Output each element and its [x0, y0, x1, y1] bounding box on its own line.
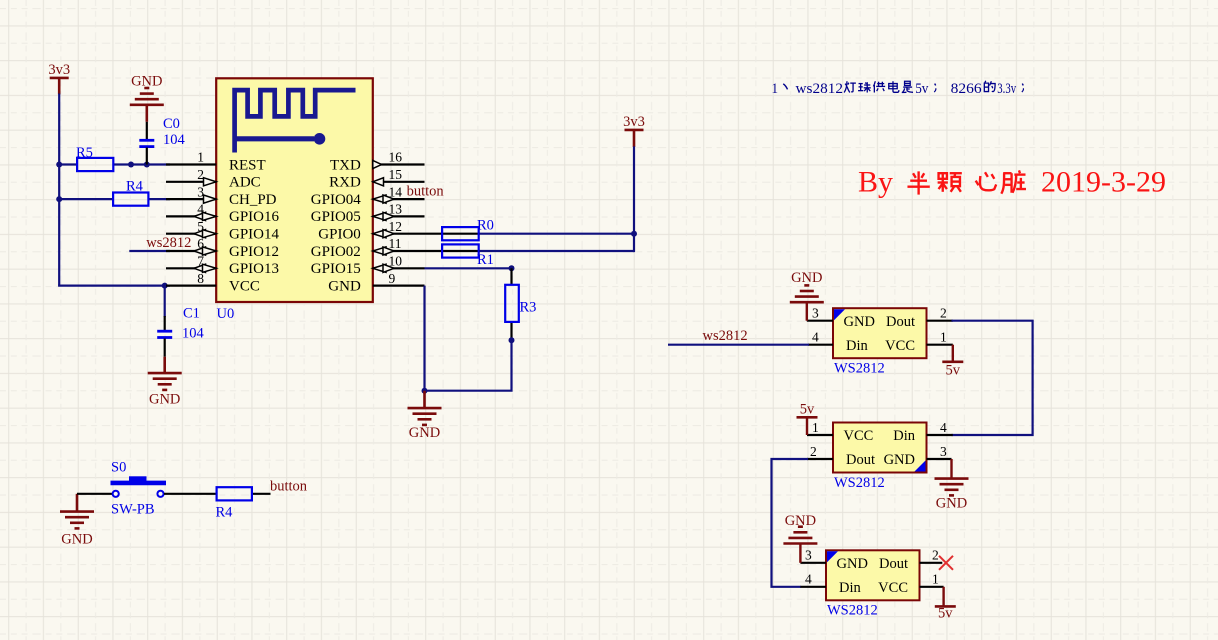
ground (below C1): [148, 357, 182, 408]
junction C1 tap: [162, 283, 168, 289]
wire 3v3 rail vertical: [58, 94, 60, 286]
svg-text:GPIO0: GPIO0: [318, 227, 361, 243]
resistor R3: [505, 268, 536, 340]
LED module WS2812 #2: [833, 423, 927, 492]
svg-text:Dout: Dout: [846, 452, 875, 468]
svg-text:3.3v: 3.3v: [997, 81, 1016, 97]
pin 4 stub (#2 Din): [927, 420, 953, 435]
svg-text:GPIO02: GPIO02: [311, 244, 361, 260]
svg-text:2019-3-29: 2019-3-29: [1041, 165, 1166, 198]
svg-text:CH_PD: CH_PD: [229, 192, 277, 208]
svg-text:15: 15: [389, 167, 403, 182]
svg-text:button: button: [270, 479, 308, 495]
svg-text:4: 4: [940, 420, 947, 435]
svg-text:1: 1: [197, 150, 204, 165]
pin 1 (REST): [166, 150, 266, 174]
svg-text:GPIO04: GPIO04: [311, 192, 362, 208]
svg-text:Din: Din: [846, 338, 869, 354]
svg-text:GND: GND: [844, 314, 875, 330]
svg-text:VCC: VCC: [844, 428, 874, 444]
svg-text:button: button: [407, 183, 445, 199]
svg-text:2: 2: [932, 548, 939, 563]
svg-text:Din: Din: [839, 580, 862, 596]
ground (#1): [790, 270, 824, 321]
wire gnd to switch: [77, 493, 113, 495]
switch S0 SW-PB: [111, 460, 167, 518]
pin 11 (GPIO02): [311, 236, 425, 260]
resistor R1: [425, 244, 494, 268]
ground (switch): [60, 494, 94, 548]
pin 4 stub (#1 Din): [808, 330, 833, 345]
svg-text:4: 4: [812, 330, 819, 345]
svg-text:RXD: RXD: [329, 175, 361, 191]
svg-text:By: By: [858, 165, 893, 198]
pin 4 stub (#3 Din): [800, 572, 826, 587]
svg-text:GND: GND: [936, 495, 967, 511]
wire pin10 to R3: [425, 267, 512, 269]
svg-text:8: 8: [197, 271, 204, 286]
power port 3v3 (right): [623, 114, 645, 147]
svg-text:3: 3: [812, 306, 819, 321]
wire switch to R4: [164, 493, 216, 495]
svg-text:GND: GND: [149, 391, 180, 407]
svg-text:SW-PB: SW-PB: [111, 502, 155, 518]
pin 12 (GPIO0): [318, 219, 424, 243]
capacitor C1: [157, 286, 204, 357]
junction R3 top: [509, 265, 515, 271]
svg-text:GND: GND: [409, 425, 440, 441]
svg-text:GPIO13: GPIO13: [229, 261, 279, 277]
svg-text:ws2812: ws2812: [146, 235, 191, 251]
svg-text:ws2812: ws2812: [703, 328, 748, 344]
svg-text:WS2812: WS2812: [827, 603, 878, 619]
svg-text:3v3: 3v3: [48, 62, 70, 78]
LED module WS2812 #1: [833, 308, 927, 376]
resistor R0: [425, 218, 494, 241]
pin 5 (GPIO14): [166, 219, 280, 243]
svg-text:U0: U0: [217, 306, 235, 322]
svg-text:VCC: VCC: [229, 278, 260, 294]
svg-text:R5: R5: [76, 145, 93, 161]
svg-text:1: 1: [932, 572, 939, 587]
pin 7 (GPIO13): [166, 254, 279, 278]
wire ws2812 net (right): [668, 344, 809, 346]
junction 3v3/R0: [631, 231, 637, 237]
svg-text:GPIO14: GPIO14: [229, 227, 280, 243]
power port 3v3 (left): [48, 62, 70, 95]
annotation By line: [858, 165, 1166, 198]
svg-text:16: 16: [389, 150, 403, 165]
svg-text:VCC: VCC: [878, 580, 908, 596]
resistor R5: [59, 145, 170, 171]
junction R5-C0 a: [128, 162, 134, 168]
pin 14 (GPIO04): [311, 184, 425, 208]
pin 2 stub (#2 Dout): [807, 444, 833, 459]
junction gnd node: [422, 388, 428, 394]
pin 10 (GPIO15): [311, 254, 425, 278]
junction R3 bottom: [509, 337, 515, 343]
svg-text:1: 1: [812, 420, 819, 435]
capacitor C0: [139, 116, 185, 165]
junction R5-C0 b: [144, 162, 150, 168]
svg-text:GPIO15: GPIO15: [311, 261, 361, 277]
wire VCC row to pin 8: [58, 285, 170, 287]
svg-text:ADC: ADC: [229, 175, 261, 191]
wire R1 to 3v3 rail: [480, 250, 634, 252]
svg-text:REST: REST: [229, 157, 266, 173]
no connect X (#3 Dout): [939, 556, 953, 570]
svg-text:5v: 5v: [800, 401, 815, 417]
svg-text:8266: 8266: [951, 81, 982, 97]
pin 2 stub (#3 Dout): [920, 548, 943, 563]
wire ws2812 net (left): [129, 250, 170, 252]
svg-text:2: 2: [940, 306, 947, 321]
ground (#2): [935, 459, 969, 511]
pin 3 stub (#1 GND): [807, 306, 833, 321]
pin 15 (RXD): [329, 167, 424, 191]
svg-text:VCC: VCC: [885, 338, 915, 354]
pin 16 (TXD): [330, 150, 425, 174]
wire pin9 down: [423, 286, 425, 392]
wire #2 Dout to #3 Din: [772, 459, 809, 587]
wire #1 Dout to #2 Din: [952, 321, 1033, 435]
power port 5v (#2): [797, 401, 818, 435]
svg-text:GND: GND: [791, 270, 822, 286]
resistor R4 (pull-up): [59, 179, 170, 206]
power port 5v (#3): [935, 587, 956, 622]
svg-text:GND: GND: [328, 278, 361, 294]
pin 6 (GPIO12): [166, 236, 279, 260]
svg-text:3: 3: [940, 444, 947, 459]
antenna logo: [235, 90, 356, 152]
pin 1 stub (#2 VCC): [807, 420, 833, 435]
svg-text:C0: C0: [163, 116, 180, 132]
svg-text:GPIO05: GPIO05: [311, 209, 361, 225]
pin 3 stub (#2 GND): [927, 444, 952, 459]
svg-text:R4: R4: [126, 179, 144, 195]
svg-text:1: 1: [772, 81, 779, 97]
svg-text:R0: R0: [477, 218, 494, 234]
pin 4 (GPIO16): [166, 202, 280, 226]
ground (above C0): [130, 74, 164, 122]
svg-text:R1: R1: [477, 252, 494, 268]
ground (below U0): [408, 391, 442, 441]
ground (#3): [783, 513, 817, 563]
svg-text:5v: 5v: [938, 606, 953, 622]
svg-text:Dout: Dout: [879, 556, 908, 572]
pin 1 stub (#1 VCC): [927, 330, 953, 345]
pin 3 (CH_PD): [166, 184, 277, 208]
svg-text:GPIO12: GPIO12: [229, 244, 279, 260]
pin 3 stub (#3 GND): [800, 548, 826, 563]
svg-text:GND: GND: [131, 74, 162, 90]
svg-text:3v3: 3v3: [623, 114, 645, 130]
svg-text:Dout: Dout: [886, 314, 915, 330]
svg-text:R3: R3: [520, 300, 537, 316]
svg-text:GND: GND: [785, 513, 816, 529]
svg-text:9: 9: [389, 271, 396, 286]
svg-text:R4: R4: [216, 505, 234, 521]
svg-text:GND: GND: [61, 531, 92, 547]
svg-text:104: 104: [163, 132, 186, 148]
pin 2 (ADC): [166, 167, 261, 191]
pin 9 (GND): [328, 271, 424, 295]
pin 8 (VCC): [166, 271, 260, 295]
svg-text:5v: 5v: [915, 81, 929, 97]
svg-text:2: 2: [810, 444, 817, 459]
wire 3v3 right rail: [633, 146, 635, 252]
svg-text:TXD: TXD: [330, 157, 361, 173]
wire R0 to 3v3 rail: [480, 233, 634, 235]
pin 13 (GPIO05): [311, 202, 425, 226]
pin 1 stub (#3 VCC): [920, 572, 944, 587]
svg-text:5v: 5v: [946, 363, 961, 379]
svg-text:ws2812: ws2812: [796, 81, 844, 97]
svg-text:WS2812: WS2812: [834, 475, 885, 491]
wire R3 bottom to gnd rail: [423, 340, 511, 391]
svg-text:4: 4: [805, 572, 812, 587]
resistor R4 (button): [216, 487, 271, 520]
pin 2 stub (#1 Dout): [927, 306, 953, 321]
svg-text:1: 1: [940, 330, 947, 345]
svg-text:3: 3: [805, 548, 812, 563]
LED module WS2812 #3: [826, 550, 920, 618]
svg-text:C1: C1: [183, 306, 200, 322]
svg-text:GND: GND: [884, 452, 915, 468]
svg-text:GND: GND: [837, 556, 868, 572]
power port 5v (#1): [942, 345, 963, 379]
svg-text:S0: S0: [111, 460, 126, 476]
svg-text:Din: Din: [893, 428, 916, 444]
svg-text:104: 104: [182, 326, 205, 342]
junction at R4: [56, 196, 62, 202]
svg-text:WS2812: WS2812: [834, 361, 885, 377]
svg-text:GPIO16: GPIO16: [229, 209, 280, 225]
IC U0 ESP8266 body: [216, 78, 373, 302]
note text line 1: [772, 81, 1024, 97]
junction at R5: [56, 162, 62, 168]
